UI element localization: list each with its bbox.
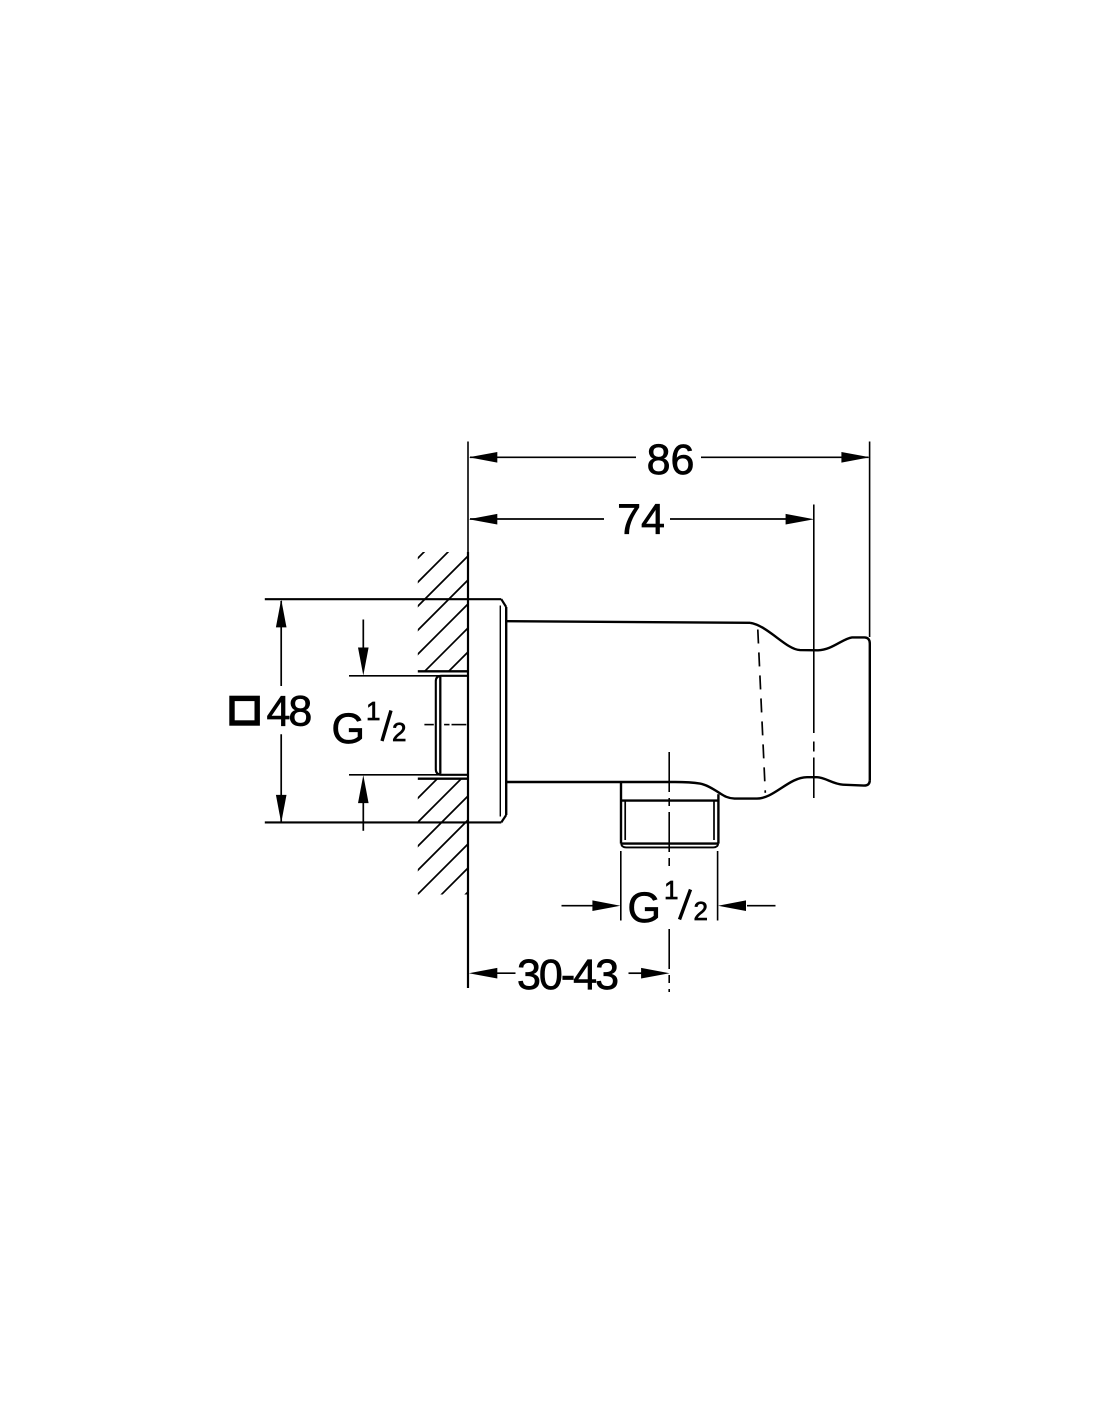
svg-text:2: 2 — [694, 896, 708, 926]
svg-text:74: 74 — [617, 496, 665, 544]
svg-text:G: G — [628, 884, 661, 932]
svg-text:2: 2 — [392, 717, 406, 747]
svg-text:30-43: 30-43 — [517, 951, 618, 999]
svg-text:86: 86 — [647, 436, 695, 484]
svg-text:48: 48 — [267, 688, 312, 736]
svg-text:G: G — [332, 705, 365, 753]
svg-text:1: 1 — [664, 875, 678, 905]
svg-text:1: 1 — [366, 696, 380, 726]
